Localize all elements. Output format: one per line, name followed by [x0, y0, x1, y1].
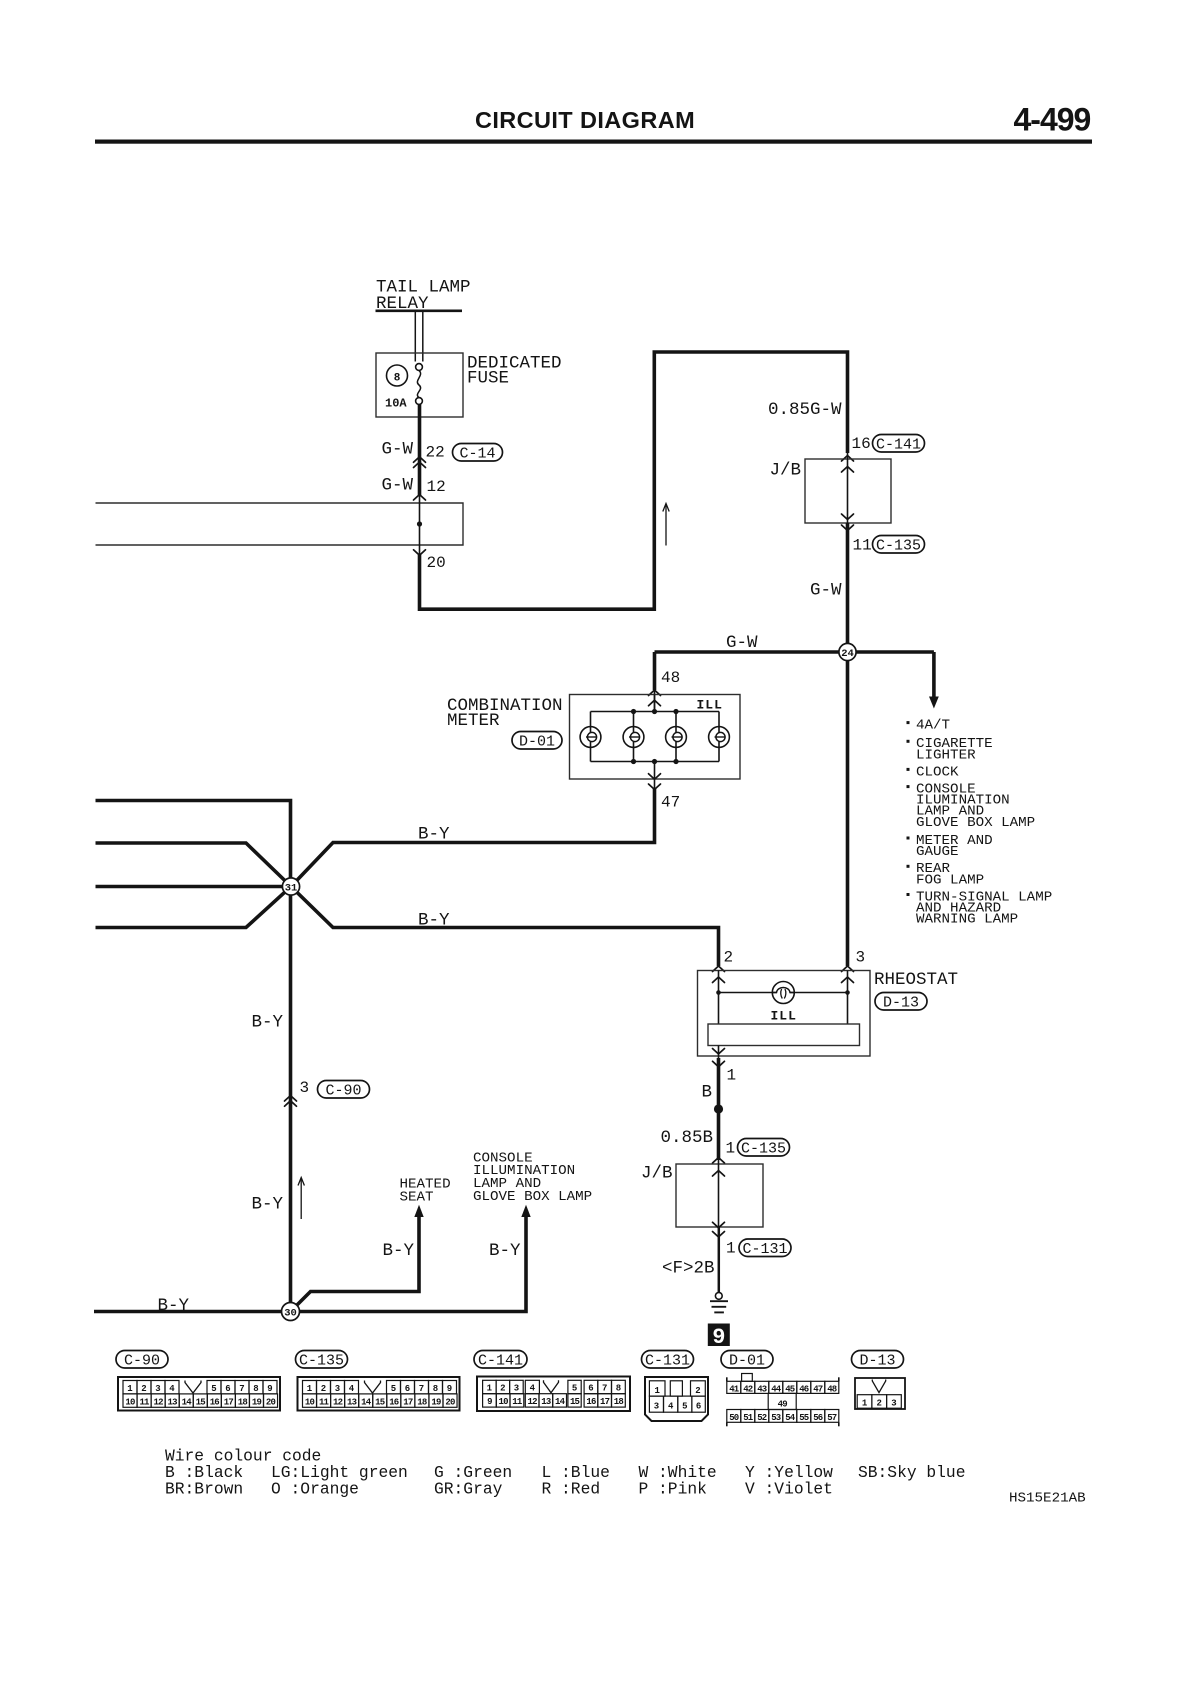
- svg-text:G-W: G-W: [382, 440, 414, 460]
- svg-text:GAUGE: GAUGE: [916, 844, 959, 860]
- svg-text:10: 10: [125, 1397, 135, 1407]
- svg-text:16: 16: [389, 1397, 399, 1407]
- svg-text:14: 14: [182, 1397, 193, 1407]
- svg-text:8: 8: [433, 1384, 438, 1394]
- svg-text:G-W: G-W: [810, 581, 842, 601]
- connector chevron at pin 12: [414, 495, 426, 501]
- svg-text:17: 17: [403, 1397, 413, 1407]
- svg-text:C-90: C-90: [325, 1082, 361, 1099]
- meter lamp bus bottom: [591, 761, 720, 763]
- svg-text:2: 2: [321, 1384, 326, 1394]
- svg-text:12: 12: [153, 1397, 163, 1407]
- svg-text:SEAT: SEAT: [400, 1190, 434, 1206]
- connector D-13: [852, 1351, 904, 1369]
- svg-text:GR:Gray: GR:Gray: [434, 1480, 503, 1499]
- svg-text:1: 1: [726, 1140, 736, 1158]
- svg-text:HS15E21AB: HS15E21AB: [1009, 1491, 1086, 1507]
- svg-text:GLOVE BOX LAMP: GLOVE BOX LAMP: [916, 815, 1035, 831]
- svg-text:6: 6: [225, 1384, 230, 1394]
- connector chevrons at C-14 pin 22: [414, 457, 426, 463]
- svg-text:J/B: J/B: [770, 461, 802, 481]
- svg-text:45: 45: [785, 1384, 795, 1394]
- meter feed wire top segment: [654, 695, 656, 712]
- svg-text:B: B: [702, 1083, 713, 1103]
- connector chevrons at rheostat pin 1: [713, 1049, 725, 1055]
- svg-text:31: 31: [285, 883, 298, 895]
- svg-text:9: 9: [447, 1384, 452, 1394]
- svg-text:22: 22: [426, 444, 445, 462]
- svg-text:12: 12: [528, 1397, 538, 1407]
- rheostat internal wires: [718, 971, 720, 1025]
- connector D-01 capsule: [512, 732, 562, 750]
- connector C-135: [296, 1351, 348, 1369]
- svg-text:3: 3: [300, 1079, 310, 1097]
- svg-text:20: 20: [427, 554, 446, 572]
- connector C-131 capsule inline: [739, 1239, 791, 1257]
- svg-text:18: 18: [238, 1397, 248, 1407]
- connector chevrons at J/B2 bottom: [713, 1222, 725, 1228]
- svg-text:9: 9: [487, 1397, 492, 1407]
- svg-text:15: 15: [375, 1397, 385, 1407]
- svg-text:ILL: ILL: [771, 1009, 797, 1024]
- svg-text:9: 9: [712, 1325, 725, 1350]
- svg-text:J/B: J/B: [641, 1164, 673, 1184]
- svg-text:5: 5: [391, 1384, 396, 1394]
- wire G-W horizontal through node 24: [655, 650, 934, 654]
- svg-text:C-141: C-141: [478, 1352, 523, 1369]
- connector D-01: [721, 1351, 773, 1369]
- svg-text:C-131: C-131: [645, 1352, 690, 1369]
- svg-text:20: 20: [266, 1397, 276, 1407]
- wire B-Y from node 31 to rheostat pin 2: [291, 887, 719, 967]
- svg-text:C-141: C-141: [876, 436, 921, 453]
- svg-text:SB:Sky blue: SB:Sky blue: [858, 1463, 965, 1482]
- svg-text:46: 46: [799, 1384, 809, 1394]
- svg-text:2: 2: [500, 1384, 505, 1394]
- svg-text:CIRCUIT DIAGRAM: CIRCUIT DIAGRAM: [475, 107, 695, 133]
- svg-text:8: 8: [394, 373, 401, 385]
- svg-text:50: 50: [729, 1413, 739, 1423]
- svg-text:5: 5: [682, 1402, 687, 1412]
- dedicated fuse box: [376, 353, 463, 417]
- connector chevrons at J/B2 top: [713, 1158, 725, 1164]
- svg-text:19: 19: [431, 1397, 441, 1407]
- connector C-141: [474, 1351, 527, 1369]
- svg-text:7: 7: [602, 1384, 607, 1394]
- svg-text:2: 2: [724, 949, 734, 967]
- svg-text:2: 2: [141, 1384, 146, 1394]
- svg-text:R :Red: R :Red: [542, 1480, 601, 1499]
- svg-text:3: 3: [856, 949, 866, 967]
- wire B-Y truncated at left to node 30: [94, 1310, 291, 1314]
- svg-text:13: 13: [347, 1397, 357, 1407]
- rheostat wiper exit wire: [718, 1046, 720, 1059]
- svg-text:ILL: ILL: [697, 698, 723, 713]
- svg-text:47: 47: [813, 1384, 823, 1394]
- svg-text:41: 41: [729, 1384, 740, 1394]
- connector C-135 capsule lower: [738, 1139, 790, 1157]
- connector C-90 capsule inline: [318, 1081, 370, 1099]
- ground symbol: [715, 1293, 722, 1300]
- rheostat resistor bar: [708, 1024, 860, 1046]
- connector C-90: [116, 1351, 168, 1369]
- svg-text:C-135: C-135: [876, 537, 921, 554]
- svg-text:43: 43: [757, 1384, 767, 1394]
- svg-text:47: 47: [661, 794, 680, 812]
- wire through junction box: [419, 496, 421, 555]
- wire B from rheostat to J/B: [717, 1058, 721, 1160]
- illumination lamp 3: [666, 727, 687, 748]
- rheostat lamp ILL: [772, 982, 794, 1004]
- svg-text:54: 54: [785, 1413, 796, 1423]
- rheostat box: [698, 971, 871, 1057]
- svg-text:16: 16: [586, 1397, 596, 1407]
- connector chevrons at meter pin 48: [649, 690, 661, 696]
- svg-text:18: 18: [614, 1397, 624, 1407]
- truncated feed wire A top: [96, 801, 291, 887]
- svg-text:C-131: C-131: [742, 1241, 787, 1258]
- svg-text:0.85G-W: 0.85G-W: [768, 400, 842, 420]
- svg-text:C-135: C-135: [299, 1352, 344, 1369]
- svg-text:14: 14: [555, 1397, 566, 1407]
- svg-text:<F>2B: <F>2B: [662, 1259, 715, 1279]
- wire B-Y node 30 to console lamp: [291, 1216, 527, 1312]
- svg-text:D-13: D-13: [883, 994, 919, 1011]
- svg-text:4: 4: [668, 1402, 674, 1412]
- junction dot in box: [417, 521, 422, 526]
- connector chevrons at J/B top pin 16: [842, 456, 854, 462]
- meter lamp bus top: [591, 711, 720, 713]
- svg-text:GLOVE BOX LAMP: GLOVE BOX LAMP: [473, 1189, 592, 1205]
- svg-text:2: 2: [695, 1386, 700, 1396]
- heated seat continuation arrow: [414, 1205, 423, 1217]
- flow arrow up beside loop wire: [665, 505, 667, 546]
- pass-through junction box (open left): [96, 503, 464, 545]
- truncated feed wire D: [96, 887, 292, 928]
- wire inside J/B 2: [718, 1160, 720, 1227]
- node 31: [282, 878, 299, 895]
- illumination lamp 2: [623, 727, 644, 748]
- svg-text:11: 11: [319, 1397, 330, 1407]
- svg-text:13: 13: [541, 1397, 551, 1407]
- svg-text:O :Orange: O :Orange: [271, 1480, 359, 1499]
- svg-text:G-W: G-W: [726, 633, 758, 653]
- truncated feed wire C: [96, 885, 292, 889]
- svg-text:D-01: D-01: [519, 733, 555, 750]
- connector chevrons at C-90 pin 3: [285, 1096, 297, 1102]
- ground reference number 9: [708, 1324, 730, 1347]
- svg-text:20: 20: [445, 1397, 455, 1407]
- combination meter box: [570, 695, 741, 780]
- svg-text:4: 4: [169, 1384, 175, 1394]
- svg-text:1: 1: [127, 1384, 133, 1394]
- svg-text:6: 6: [588, 1384, 593, 1394]
- svg-text:19: 19: [252, 1397, 262, 1407]
- svg-text:LIGHTER: LIGHTER: [916, 747, 976, 763]
- svg-text:5: 5: [572, 1384, 577, 1394]
- svg-text:4A/T: 4A/T: [916, 718, 950, 734]
- ground lead wire: [718, 1227, 721, 1292]
- svg-text:FUSE: FUSE: [467, 369, 509, 389]
- wire B-Y node 30 to heated seat: [291, 1216, 420, 1312]
- accessory load list: [907, 721, 910, 724]
- svg-text:3: 3: [514, 1384, 519, 1394]
- connector C-131: [642, 1351, 694, 1369]
- svg-text:11: 11: [139, 1397, 150, 1407]
- svg-text:16: 16: [210, 1397, 220, 1407]
- meter lamp branch wires: [590, 712, 592, 762]
- connector chevrons at rheostat pin 2: [713, 966, 725, 972]
- relay lead wires: [414, 312, 416, 362]
- svg-text:3: 3: [335, 1384, 340, 1394]
- svg-text:C-90: C-90: [124, 1352, 160, 1369]
- svg-text:44: 44: [771, 1384, 782, 1394]
- svg-text:10: 10: [305, 1397, 315, 1407]
- svg-text:17: 17: [600, 1397, 610, 1407]
- svg-text:1: 1: [726, 1240, 736, 1258]
- svg-text:30: 30: [284, 1308, 297, 1320]
- connector C-135 capsule: [873, 536, 925, 554]
- svg-text:12: 12: [333, 1397, 343, 1407]
- svg-text:B-Y: B-Y: [418, 825, 450, 845]
- svg-text:15: 15: [196, 1397, 206, 1407]
- svg-text:D-01: D-01: [729, 1352, 765, 1369]
- svg-text:G-W: G-W: [382, 476, 414, 496]
- flow arrow up beside B-Y vertical: [300, 1179, 302, 1219]
- svg-text:42: 42: [743, 1384, 753, 1394]
- svg-text:4: 4: [530, 1384, 536, 1394]
- illumination lamp 1: [580, 727, 601, 748]
- svg-text:12: 12: [427, 478, 446, 496]
- junction block J/B 2 box: [676, 1164, 763, 1227]
- svg-text:17: 17: [224, 1397, 234, 1407]
- svg-text:V :Violet: V :Violet: [745, 1480, 833, 1499]
- svg-text:10: 10: [499, 1397, 509, 1407]
- svg-text:11: 11: [853, 537, 872, 555]
- svg-text:52: 52: [757, 1413, 767, 1423]
- wire inside J/B: [847, 453, 849, 523]
- svg-text:1: 1: [727, 1067, 737, 1085]
- svg-text:7: 7: [239, 1384, 244, 1394]
- svg-text:2: 2: [877, 1399, 882, 1409]
- svg-text:18: 18: [417, 1397, 427, 1407]
- svg-text:BR:Brown: BR:Brown: [165, 1480, 243, 1499]
- wire B-Y from meter pin 47 to node 31: [291, 788, 655, 887]
- svg-text:55: 55: [799, 1413, 809, 1423]
- svg-text:4-499: 4-499: [1014, 102, 1091, 138]
- svg-text:10A: 10A: [385, 397, 407, 411]
- svg-text:D-13: D-13: [859, 1352, 895, 1369]
- node 30: [282, 1303, 300, 1321]
- meter exit wire bottom segment: [654, 762, 656, 791]
- connector chevron at pin 20: [414, 550, 426, 556]
- node 24: [839, 643, 856, 660]
- svg-text:B-Y: B-Y: [418, 911, 450, 931]
- wire G-W from J/B down to rheostat pin 3: [846, 523, 850, 966]
- svg-text:4: 4: [349, 1384, 355, 1394]
- junction block J/B box: [805, 459, 891, 523]
- connector chevrons at rheostat pin 3: [842, 966, 854, 972]
- svg-text:RHEOSTAT: RHEOSTAT: [874, 970, 958, 990]
- svg-text:53: 53: [771, 1413, 781, 1423]
- wire B-Y from node 31 down to node 30: [289, 887, 293, 1312]
- svg-text:14: 14: [361, 1397, 372, 1407]
- svg-text:WARNING LAMP: WARNING LAMP: [916, 912, 1018, 928]
- wire from node 24 row down to combination meter pin 48: [653, 652, 657, 690]
- svg-text:B-Y: B-Y: [158, 1296, 190, 1316]
- svg-text:B-Y: B-Y: [383, 1241, 415, 1261]
- svg-text:1: 1: [862, 1399, 868, 1409]
- connector chevrons at meter pin 47: [649, 774, 661, 780]
- svg-text:11: 11: [512, 1397, 523, 1407]
- connector D-13 capsule: [875, 993, 927, 1011]
- svg-text:1: 1: [307, 1384, 313, 1394]
- svg-text:15: 15: [570, 1397, 580, 1407]
- svg-text:FOG LAMP: FOG LAMP: [916, 872, 984, 888]
- svg-text:1: 1: [654, 1386, 660, 1396]
- header rule: [95, 140, 1092, 144]
- svg-text:6: 6: [696, 1402, 701, 1412]
- wire G-W from fuse to junction box row: [418, 405, 422, 497]
- svg-text:24: 24: [841, 648, 854, 660]
- svg-text:C-14: C-14: [459, 445, 495, 462]
- meter bus junction dots: [631, 709, 636, 714]
- tail lamp relay bus bar: [376, 309, 463, 312]
- svg-text:METER: METER: [447, 711, 500, 731]
- svg-text:57: 57: [827, 1413, 837, 1423]
- svg-text:1: 1: [487, 1384, 493, 1394]
- connector chevrons at J/B bottom pin 11: [842, 514, 854, 520]
- console lamp continuation arrow: [521, 1205, 530, 1217]
- svg-text:16: 16: [852, 435, 871, 453]
- svg-text:B-Y: B-Y: [252, 1195, 284, 1215]
- truncated feed wire B: [96, 843, 292, 887]
- svg-text:5: 5: [211, 1384, 216, 1394]
- svg-text:3: 3: [654, 1402, 659, 1412]
- svg-text:56: 56: [813, 1413, 823, 1423]
- svg-text:0.85B: 0.85B: [661, 1128, 714, 1148]
- svg-text:CLOCK: CLOCK: [916, 764, 959, 780]
- svg-text:3: 3: [155, 1384, 160, 1394]
- splice dot on B wire: [714, 1104, 723, 1113]
- connector C-14 capsule: [453, 444, 503, 462]
- fuse number circle 8: [387, 365, 408, 386]
- svg-text:48: 48: [827, 1384, 837, 1394]
- svg-text:8: 8: [253, 1384, 258, 1394]
- svg-text:7: 7: [419, 1384, 424, 1394]
- svg-text:8: 8: [616, 1384, 621, 1394]
- svg-text:C-135: C-135: [741, 1140, 786, 1157]
- svg-text:P :Pink: P :Pink: [639, 1480, 707, 1499]
- wire main loop from fuse circuit to J/B: [420, 352, 848, 609]
- svg-text:3: 3: [891, 1399, 896, 1409]
- svg-text:9: 9: [267, 1384, 272, 1394]
- svg-text:13: 13: [168, 1397, 178, 1407]
- svg-text:51: 51: [743, 1413, 754, 1423]
- svg-text:49: 49: [778, 1399, 788, 1409]
- illumination lamp 4: [709, 727, 730, 748]
- svg-text:B-Y: B-Y: [489, 1241, 521, 1261]
- svg-text:B-Y: B-Y: [252, 1013, 284, 1033]
- branch arrow to accessory list: [932, 652, 936, 697]
- fuse element: [416, 364, 423, 371]
- svg-text:48: 48: [661, 669, 680, 687]
- svg-text:6: 6: [405, 1384, 410, 1394]
- connector C-141 capsule: [873, 435, 925, 453]
